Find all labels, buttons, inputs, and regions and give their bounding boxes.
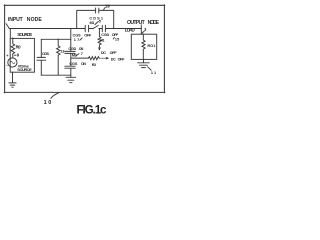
label 9 leader [14, 54, 16, 56]
svg-text:NODE: NODE [148, 20, 160, 26]
junction [58, 39, 59, 40]
wire: input hook leader [6, 24, 9, 29]
svg-text:R1: R1 [100, 38, 104, 42]
junction node [113, 28, 114, 29]
label 5 leader [95, 22, 98, 25]
svg-text:7: 7 [81, 52, 83, 56]
arrow to DC OFF (down) [99, 48, 101, 50]
svg-text:ON: ON [79, 47, 84, 51]
load box [131, 34, 156, 59]
svg-text:SOURCE: SOURCE [17, 32, 32, 37]
svg-text:SOURCE: SOURCE [17, 67, 32, 72]
ground (source) [9, 83, 16, 87]
source V1 sine [8, 58, 17, 67]
wire: bus tee down at x70.8 [70, 29, 72, 52]
svg-text:R0: R0 [16, 45, 22, 50]
svg-text:CGS: CGS [73, 33, 82, 37]
arrow to DC OFF (right) [100, 57, 108, 59]
svg-text:OFF: OFF [118, 58, 125, 62]
svg-text:DC: DC [111, 58, 116, 62]
svg-text:ON: ON [81, 62, 86, 66]
svg-text:RO1: RO1 [147, 44, 155, 48]
svg-text:DC: DC [101, 51, 106, 55]
switch M1 [93, 25, 98, 28]
svg-text:OFF: OFF [110, 51, 118, 55]
capacitor CGS [37, 39, 46, 75]
svg-text:CGD: CGD [68, 47, 76, 51]
resistor R0 [11, 38, 15, 58]
capacitor CGS OFF [85, 25, 93, 32]
svg-text:M1: M1 [90, 21, 95, 25]
svg-text:17: 17 [74, 38, 79, 42]
resistor R1 [98, 29, 101, 50]
label 11 leader [148, 67, 152, 70]
svg-text:R2: R2 [92, 63, 96, 67]
ground (load) [138, 63, 150, 68]
svg-text:CDS1: CDS1 [89, 16, 103, 20]
capacitor CGD ON [65, 51, 75, 58]
svg-text:10: 10 [44, 100, 52, 106]
svg-text:9: 9 [17, 52, 20, 57]
svg-text:INPUT: INPUT [8, 17, 24, 23]
svg-text:+: + [6, 53, 9, 58]
svg-text:CGS: CGS [42, 52, 49, 56]
wire: sub-bus [41, 38, 71, 40]
resistor 13 [57, 39, 60, 75]
wire: main bus left segment [9, 28, 85, 30]
svg-text:15: 15 [115, 38, 119, 42]
resistor R2 [88, 57, 99, 60]
capacitor CDS1 branch [77, 8, 114, 29]
svg-text:CGD: CGD [101, 33, 109, 37]
capacitor CGS ON [65, 58, 75, 77]
svg-text:11: 11 [151, 71, 156, 75]
svg-text:OFF: OFF [112, 33, 119, 37]
wire: M2 branch horizontal [71, 57, 89, 59]
svg-text:LOAD: LOAD [125, 27, 136, 32]
wire: bus to source box [9, 29, 11, 39]
svg-text:13: 13 [60, 50, 64, 54]
wire: load box to ground [143, 59, 145, 63]
ground (middle) [66, 77, 76, 82]
resistor RO1 [142, 34, 145, 59]
wire: bus under switch [99, 28, 102, 30]
svg-text:CGS: CGS [69, 62, 77, 66]
border frame [4, 5, 165, 92]
source box [10, 38, 34, 72]
svg-text:NODE: NODE [27, 17, 43, 23]
svg-text:OFF: OFF [84, 33, 92, 37]
svg-text:FIG.1c: FIG.1c [77, 103, 108, 116]
wire: source box to ground [12, 72, 14, 83]
svg-text:19: 19 [105, 3, 110, 8]
svg-text:OUTPUT: OUTPUT [127, 20, 146, 26]
capacitor CGD OFF [102, 25, 141, 32]
wire: bus into load [140, 25, 142, 34]
wire: bottom bus [41, 74, 71, 76]
